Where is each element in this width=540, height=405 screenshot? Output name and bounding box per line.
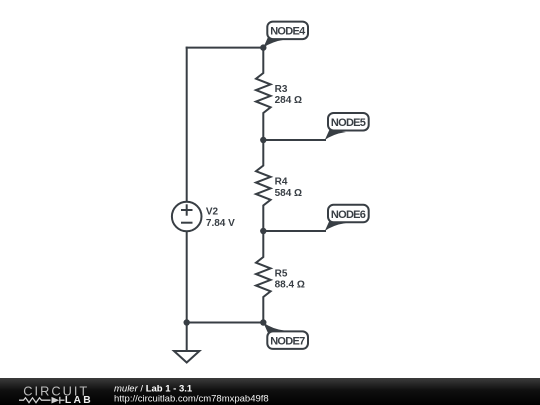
svg-text:NODE6: NODE6	[331, 209, 366, 221]
svg-text:7.84 V: 7.84 V	[206, 218, 235, 229]
svg-text:584 Ω: 584 Ω	[275, 188, 302, 199]
svg-text:88.4 Ω: 88.4 Ω	[275, 280, 305, 291]
svg-text:V2: V2	[206, 207, 219, 218]
svg-text:NODE4: NODE4	[270, 26, 306, 38]
svg-text:http://circuitlab.com/cm78mxpa: http://circuitlab.com/cm78mxpab49f8	[114, 394, 269, 405]
svg-text:R5: R5	[275, 268, 288, 279]
svg-text:NODE7: NODE7	[270, 336, 305, 348]
svg-text:R4: R4	[275, 176, 288, 187]
svg-text:LAB: LAB	[65, 395, 93, 405]
svg-text:R3: R3	[275, 84, 288, 95]
svg-text:NODE5: NODE5	[331, 117, 366, 129]
svg-text:284 Ω: 284 Ω	[275, 95, 302, 106]
